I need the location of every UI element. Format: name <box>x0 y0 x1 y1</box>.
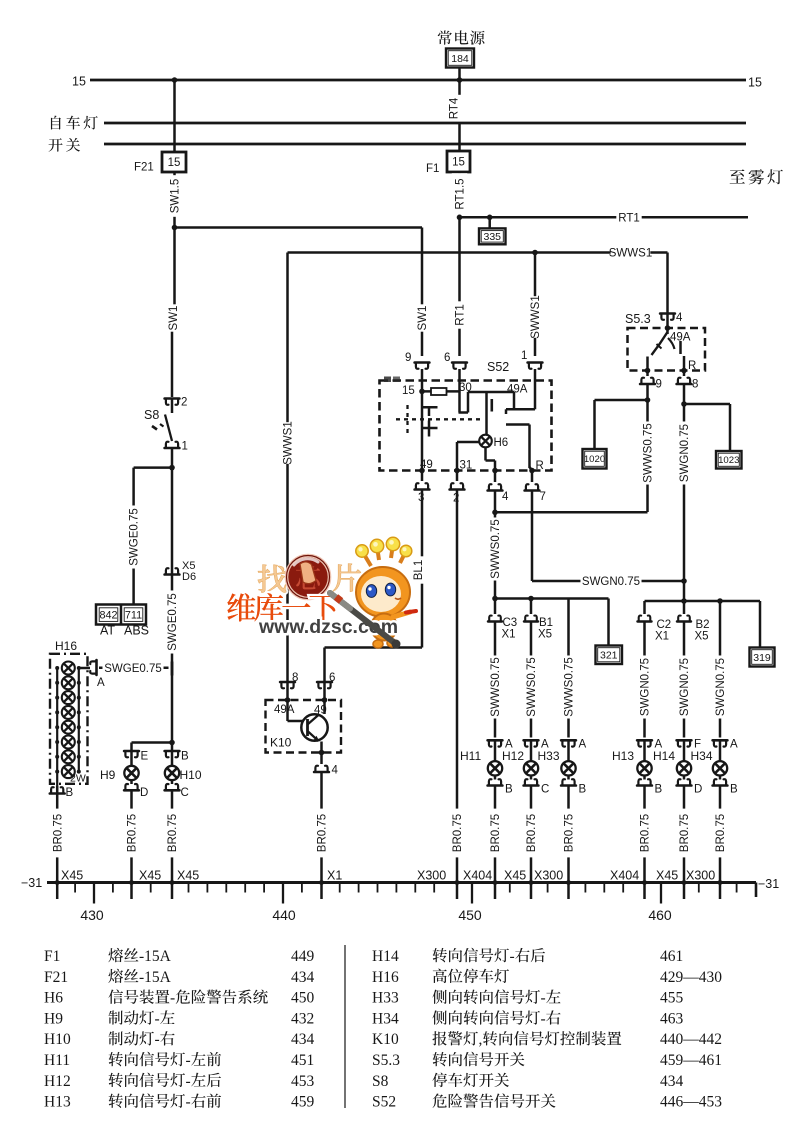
svg-text:H33: H33 <box>538 749 560 763</box>
node junction below S8 <box>169 465 175 471</box>
wire pin8 wire continues to right bus <box>683 581 686 601</box>
K10 internal wiring <box>286 700 289 721</box>
connector pin A of H16 <box>90 660 96 675</box>
wire BR0.75 from H9 to ground bus <box>130 790 133 899</box>
svg-text:X300: X300 <box>417 869 446 883</box>
wire label RT4 <box>446 95 462 122</box>
svg-text:H13: H13 <box>612 749 634 763</box>
svg-text:SWGE0.75: SWGE0.75 <box>104 663 162 675</box>
node junction stop lamp branch <box>169 740 175 746</box>
connector C3/X1 on H11 feed <box>494 599 497 615</box>
watermark 维库一下 text <box>227 593 338 621</box>
connector pin A of H13 <box>637 740 652 746</box>
wire lamp to pin B <box>567 776 570 780</box>
svg-text:ABS: ABS <box>124 624 149 638</box>
node K10 top pin junctions <box>285 697 291 703</box>
svg-text:450: 450 <box>458 907 482 923</box>
svg-text:451: 451 <box>291 1052 314 1069</box>
svg-text:A: A <box>97 677 105 689</box>
wire BR0.75 from H13 to ground bus <box>643 786 646 900</box>
label 至雾灯 (to fog lamp) <box>730 169 783 184</box>
connector X5/D6 <box>165 568 180 574</box>
svg-text:319: 319 <box>753 652 771 664</box>
svg-text:15: 15 <box>72 75 86 89</box>
connector pin B of H34 <box>713 779 728 785</box>
wire into lamp H11 <box>494 740 497 761</box>
svg-text:-: - <box>541 1010 546 1027</box>
svg-text:R: R <box>536 460 544 472</box>
svg-text:453: 453 <box>291 1073 315 1090</box>
svg-text:9: 9 <box>405 352 411 364</box>
resistor inside S52 <box>431 388 447 395</box>
S52 internal wire H6 to pin 31 <box>457 441 479 444</box>
svg-text:BR0.75: BR0.75 <box>452 814 464 852</box>
turn signal lamp H14 <box>677 761 691 775</box>
node junction H14 feed <box>681 598 687 604</box>
wire RT1.5 from F1 down <box>458 172 461 217</box>
svg-text:SWGN0.75: SWGN0.75 <box>679 658 691 716</box>
wire RT4 from 184 to fuse F1 <box>458 68 461 153</box>
svg-text:X5: X5 <box>695 631 709 643</box>
svg-text:X1: X1 <box>327 869 342 883</box>
label 自车灯 (headlamp) <box>51 116 98 130</box>
svg-text:15: 15 <box>452 157 465 169</box>
wire BR0.75 from H10 to ground bus <box>171 790 174 899</box>
svg-text:434: 434 <box>291 1031 315 1048</box>
wire pin4 into S5.3 <box>666 314 669 329</box>
stop lamp H9 (left) <box>130 751 133 766</box>
node junction pin9/pin4 wires meet <box>492 510 498 516</box>
wire pin6 into K10 <box>323 682 326 700</box>
connector pin E of H9 <box>124 751 139 757</box>
svg-text:H12: H12 <box>502 749 524 763</box>
node junction RT1 <box>457 215 463 221</box>
svg-text:H14: H14 <box>372 948 399 965</box>
connector pin 7 of S52 <box>531 471 534 483</box>
svg-text:C3: C3 <box>503 617 518 629</box>
svg-text:A: A <box>579 739 587 751</box>
svg-text:15: 15 <box>748 76 762 90</box>
svg-text:SWWS0.75: SWWS0.75 <box>564 657 576 716</box>
svg-text:H6: H6 <box>44 990 63 1007</box>
wire stub to terminal 335 <box>488 217 491 228</box>
connector pin C of H12 <box>524 779 539 785</box>
S52 internal wire H6 to pin 4 <box>484 447 487 460</box>
svg-text:K10: K10 <box>270 736 292 750</box>
wire BL1 from S52 pin 3 <box>421 490 424 648</box>
node S52 bottom pin junctions <box>419 468 425 474</box>
connector pin 4 of S52 <box>494 471 497 483</box>
connector pin A of H12 <box>524 740 539 746</box>
wire SW1.5 from F21 down <box>173 172 176 228</box>
wire 15 bus (top horizontal) <box>90 79 746 82</box>
flasher relay K10 dashed box <box>266 700 342 753</box>
svg-text:,: , <box>479 1031 483 1048</box>
svg-text:49A: 49A <box>274 704 295 716</box>
svg-text:1020: 1020 <box>584 454 605 465</box>
connector pin 1 of S52 <box>528 363 543 369</box>
svg-text:BR0.75: BR0.75 <box>640 814 652 852</box>
wire BR0.75 from H33 to ground bus <box>567 786 570 900</box>
svg-text:S8: S8 <box>144 408 159 422</box>
svg-text:S8: S8 <box>372 1073 389 1090</box>
watermark magnifier handle rod <box>330 593 396 644</box>
connector pin B of H33 <box>561 779 576 785</box>
svg-text:4: 4 <box>502 491 509 503</box>
svg-text:B: B <box>66 787 74 799</box>
wire SWWS1 down to S52 pin 1 <box>534 253 537 357</box>
S5.3 rotary contact <box>666 328 669 334</box>
node junction pin4 at box top <box>665 325 671 331</box>
svg-text:H10: H10 <box>180 768 202 782</box>
S5.3 left leg to pin 9 <box>646 357 649 371</box>
connector pin A of H11 <box>488 740 503 746</box>
svg-text:F21: F21 <box>44 969 68 986</box>
svg-text:E: E <box>141 751 149 763</box>
svg-text:SW1.5: SW1.5 <box>170 179 182 214</box>
svg-text:X45: X45 <box>656 869 678 883</box>
svg-text:BR0.75: BR0.75 <box>564 814 576 852</box>
connector pin 8 of K10 <box>280 682 295 688</box>
node junction 1023 branch <box>681 401 687 407</box>
wire label SWGE0.75 horizontal <box>99 667 169 670</box>
turn signal lamp H12 <box>524 761 538 775</box>
svg-text:SWGN0.75: SWGN0.75 <box>582 576 640 588</box>
wire BR0.75 from H34 to ground bus <box>719 786 722 900</box>
connector pin B of H16 <box>56 786 59 794</box>
fuse F21 (15A) <box>162 152 186 172</box>
connector pin 9 of S52 <box>415 363 430 369</box>
svg-text:S5.3: S5.3 <box>625 312 651 326</box>
svg-text:15: 15 <box>402 385 415 397</box>
fuse F1 (15A) <box>447 151 470 172</box>
svg-text:H16: H16 <box>372 969 399 986</box>
svg-text:H11: H11 <box>44 1052 70 1069</box>
svg-text:C: C <box>541 784 549 796</box>
svg-text:B: B <box>655 784 663 796</box>
label 开关 (switch) <box>49 138 81 152</box>
connector pin 9 of S5.3 <box>646 371 649 377</box>
S52 internal rail pin15 to pin3 <box>421 381 424 471</box>
svg-text:-: - <box>510 948 515 965</box>
wire H34 column down <box>719 601 722 738</box>
svg-text:455: 455 <box>660 990 684 1007</box>
wire into lamp H14 <box>683 740 686 761</box>
wire SWWS1 down to K10 pin 8 <box>286 253 289 683</box>
svg-text:H11: H11 <box>460 749 481 763</box>
watermark 找芯片 text <box>258 565 286 593</box>
watermark mascot <box>356 537 416 648</box>
svg-text:450: 450 <box>291 990 315 1007</box>
wire branch to terminal 1023 <box>684 403 730 406</box>
wire SWWS1 down to S5.3 pin 4 <box>666 253 669 314</box>
ground bus -31 <box>47 881 756 884</box>
svg-text:X45: X45 <box>139 869 161 883</box>
svg-text:4: 4 <box>676 312 683 324</box>
svg-text:434: 434 <box>660 1073 684 1090</box>
node junction on pin15 rail <box>419 389 425 395</box>
svg-text:F21: F21 <box>134 162 154 174</box>
connector pin F of H14 <box>677 740 692 746</box>
wire down to H10 <box>171 743 174 752</box>
connector pin 6 of S52 <box>452 363 467 369</box>
stop lamp H10 (right) <box>171 751 174 766</box>
wire branch to H9 <box>132 741 173 744</box>
svg-text:-: - <box>541 990 546 1007</box>
svg-text:X45: X45 <box>61 869 83 883</box>
wire lamp to pin B <box>719 776 722 780</box>
svg-text:RT4: RT4 <box>449 97 461 119</box>
wire H13 column down <box>643 622 646 738</box>
svg-text:SWWS0.75: SWWS0.75 <box>643 423 655 482</box>
terminal box 335 <box>479 228 506 244</box>
connector pin 4 of S5.3 <box>660 314 675 320</box>
svg-text:H33: H33 <box>372 990 399 1007</box>
svg-text:-: - <box>186 1052 191 1069</box>
wire down to K10 pin 6 <box>323 648 326 683</box>
node junction F21 tap on 15 bus <box>172 77 178 83</box>
svg-text:SW1: SW1 <box>168 306 180 331</box>
terminal box 321 <box>596 646 623 665</box>
svg-text:S52: S52 <box>487 360 509 374</box>
wire S52 pin4 down (SWWS0.75) <box>494 491 497 599</box>
connector pin 1 of S8 <box>165 442 180 448</box>
svg-text:8: 8 <box>292 672 298 684</box>
svg-text:S5.3: S5.3 <box>372 1052 400 1069</box>
wire from pin 8 down <box>683 384 686 581</box>
svg-text:RT1: RT1 <box>455 304 467 326</box>
connector pin B of H13 <box>637 779 652 785</box>
node junction 1020 branch <box>645 397 651 403</box>
connector pin B of H10 <box>165 751 180 757</box>
svg-text:6: 6 <box>444 352 450 364</box>
wire label SWWS0.75 on pin9 wire <box>640 421 656 484</box>
right distribution bus SWGN <box>645 600 761 603</box>
hazard warning switch S52 dashed box <box>380 381 552 471</box>
S52 internal wire pin 1 / 49A path <box>534 381 537 410</box>
svg-text:X300: X300 <box>686 869 715 883</box>
node S5.3 bottom junctions <box>645 368 651 374</box>
wire lamp to pin B <box>643 776 646 780</box>
svg-text:B2: B2 <box>696 619 710 631</box>
svg-text:2W: 2W <box>70 773 86 785</box>
wire BR0.75 from H11 to ground bus <box>494 786 497 900</box>
svg-text:B: B <box>579 784 587 796</box>
svg-text:440—442: 440—442 <box>660 1031 722 1048</box>
svg-text:H12: H12 <box>44 1073 71 1090</box>
node junction SW1 branch <box>172 225 178 231</box>
wire pin1 into S52 <box>534 369 537 381</box>
svg-text:842: 842 <box>99 610 117 622</box>
wire S52 pin7 down <box>531 491 534 582</box>
wire SWGN0.75 horizontal from pin7 <box>532 580 684 583</box>
svg-text:-: - <box>155 1031 160 1048</box>
watermark magnifier with 芯 <box>287 556 330 599</box>
wire pin9 into S52 <box>421 369 424 381</box>
svg-text:432: 432 <box>291 1010 314 1027</box>
svg-text:335: 335 <box>483 231 501 243</box>
svg-text:D: D <box>694 784 702 796</box>
svg-text:SWWS0.75: SWWS0.75 <box>490 519 502 578</box>
svg-text:K10: K10 <box>372 1031 399 1048</box>
wire SWGE0.75 to stop lamps <box>171 575 174 743</box>
wire into lamp H33 <box>567 740 570 761</box>
wire BR0.75 from K10 to ground bus <box>320 772 323 899</box>
terminal box 319 <box>750 648 775 667</box>
svg-text:B: B <box>505 784 513 796</box>
turn signal switch S5.3 dashed box <box>628 328 706 371</box>
S52 internal wire pin 30 path <box>458 381 461 413</box>
svg-text:31: 31 <box>460 460 473 472</box>
svg-text:X5: X5 <box>538 629 552 641</box>
svg-text:SW1: SW1 <box>417 306 429 331</box>
connector pin 2 of S8 <box>165 399 180 405</box>
svg-text:711: 711 <box>125 610 142 622</box>
svg-text:-15A: -15A <box>139 948 172 965</box>
wire pin6 into S52 <box>458 369 461 381</box>
terminal box 1023 <box>716 451 742 469</box>
svg-text:463: 463 <box>660 1010 684 1027</box>
svg-text:H6: H6 <box>494 437 509 449</box>
node junction SWGN joins pin8 wire <box>681 578 687 584</box>
svg-text:H14: H14 <box>653 749 675 763</box>
legend table divider <box>344 945 346 1108</box>
S52 internal contact R side <box>506 423 530 426</box>
wire H12 column down <box>530 622 533 738</box>
terminal box 1020 <box>583 449 607 469</box>
terminal box 184 <box>446 49 474 68</box>
svg-text:−31: −31 <box>758 877 779 891</box>
connector pin D of H14 <box>677 779 692 785</box>
svg-text:AT: AT <box>100 624 115 638</box>
svg-text:BR0.75: BR0.75 <box>317 814 329 852</box>
svg-text:460: 460 <box>648 907 672 923</box>
wire into lamp H12 <box>530 740 533 761</box>
svg-text:321: 321 <box>600 650 618 662</box>
connector pin 8 of S5.3 <box>683 371 686 377</box>
wire label SWGN0.75 on pin8 wire <box>676 421 692 484</box>
node 常电源 (constant power) label <box>438 30 485 44</box>
svg-text:H34: H34 <box>372 1010 399 1027</box>
terminal box 711 (ABS) <box>124 608 143 622</box>
wire lamp to pin B <box>494 776 497 780</box>
node junction F1 tap on 15 bus <box>457 77 463 83</box>
svg-text:RT1: RT1 <box>618 212 640 224</box>
connector pin 4 of K10 <box>320 753 323 765</box>
svg-text:1: 1 <box>182 441 188 453</box>
warning lamp H6 inside S52 <box>479 435 492 448</box>
junction bar at SWGE0.75 wire end <box>171 662 174 676</box>
svg-text:A: A <box>730 739 738 751</box>
svg-text:X45: X45 <box>177 869 199 883</box>
S52 moving contact to H6 <box>485 392 488 435</box>
svg-text:2: 2 <box>181 397 187 409</box>
svg-text:434: 434 <box>291 969 315 986</box>
H16 left rail <box>56 668 58 786</box>
wire lamp to pin C <box>530 776 533 780</box>
svg-text:X404: X404 <box>463 869 492 883</box>
svg-text:459: 459 <box>291 1094 315 1111</box>
svg-text:H9: H9 <box>100 768 116 782</box>
node junction H11 feed <box>492 596 498 602</box>
left distribution bus SWWS <box>495 597 609 600</box>
svg-text:B1: B1 <box>539 617 553 629</box>
wire transistor emitter to pin 4 <box>320 742 323 753</box>
svg-text:440: 440 <box>272 907 296 923</box>
svg-text:BR0.75: BR0.75 <box>679 814 691 852</box>
svg-text:D6: D6 <box>182 571 196 583</box>
svg-text:SWGN0.75: SWGN0.75 <box>640 658 652 716</box>
connector B2/X5 on H14 feed <box>683 601 686 614</box>
wire BL1 horizontal to K10 <box>325 646 423 649</box>
wire into lamp H34 <box>719 740 722 761</box>
connector B1/X5 on H12 feed <box>530 599 533 615</box>
svg-text:BR0.75: BR0.75 <box>715 814 727 852</box>
turn signal lamp H13 <box>637 761 651 775</box>
svg-text:8: 8 <box>692 379 698 391</box>
svg-text:SWGN0.75: SWGN0.75 <box>679 424 691 482</box>
connector pin 2 of S52 <box>456 471 459 482</box>
svg-text:H9: H9 <box>44 1010 63 1027</box>
wire H16 pin A <box>79 667 90 670</box>
svg-text:SWGE0.75: SWGE0.75 <box>129 508 141 566</box>
S52 internal wire to resistor <box>422 390 460 393</box>
svg-text:X300: X300 <box>534 869 563 883</box>
wire SW1 down to S52 pin 9 <box>421 228 424 357</box>
H16 right rail <box>78 668 80 772</box>
wire RT1 down to S52 pin 6 <box>458 217 461 356</box>
wire switch line <box>104 143 746 146</box>
wire headlamp line <box>104 122 746 125</box>
svg-text:R: R <box>688 360 696 372</box>
svg-text:SWWS1: SWWS1 <box>530 295 542 338</box>
wire SWWS1 horizontal <box>288 251 668 254</box>
node K10 bottom junction <box>319 750 325 756</box>
connector pin 3 of S52 <box>421 471 424 482</box>
svg-text:SWWS1: SWWS1 <box>609 248 652 260</box>
turn signal lamp H34 <box>713 761 727 775</box>
svg-text:B: B <box>181 751 189 763</box>
wire S5.3 pin9 joins pin4 wire <box>495 511 648 514</box>
wire branch to terminal 1020 <box>595 399 648 402</box>
svg-text:S52: S52 <box>372 1094 396 1111</box>
svg-text:SWWS0.75: SWWS0.75 <box>490 657 502 716</box>
connector pin C of H10 <box>171 780 174 784</box>
connector pin D of H9 <box>130 780 133 784</box>
svg-text:446—453: 446—453 <box>660 1094 722 1111</box>
connector pin A of H34 <box>713 740 728 746</box>
wire to terminal 319 <box>759 601 762 648</box>
wire BR0.75 from S52 pin 2 to ground bus <box>456 490 459 900</box>
wire H14 column down <box>683 622 686 738</box>
ground bus end tick <box>755 883 758 898</box>
connector pin 6 of K10 <box>317 682 332 688</box>
turn signal lamp H11 <box>488 761 502 775</box>
wire branch to ABS connection <box>134 466 172 469</box>
wire pin8 into K10 <box>286 682 289 700</box>
svg-text:461: 461 <box>660 948 683 965</box>
svg-text:F1: F1 <box>44 948 60 965</box>
svg-text:SWGN0.75: SWGN0.75 <box>715 658 727 716</box>
svg-text:449: 449 <box>291 948 315 965</box>
svg-text:BL1: BL1 <box>413 560 425 580</box>
wire from pin 9 down <box>646 384 649 512</box>
svg-text:H13: H13 <box>44 1094 71 1111</box>
svg-text:−31: −31 <box>21 876 42 890</box>
svg-text:H34: H34 <box>691 749 713 763</box>
wire H33 column down <box>567 599 570 738</box>
wire H11 column down <box>494 622 497 738</box>
